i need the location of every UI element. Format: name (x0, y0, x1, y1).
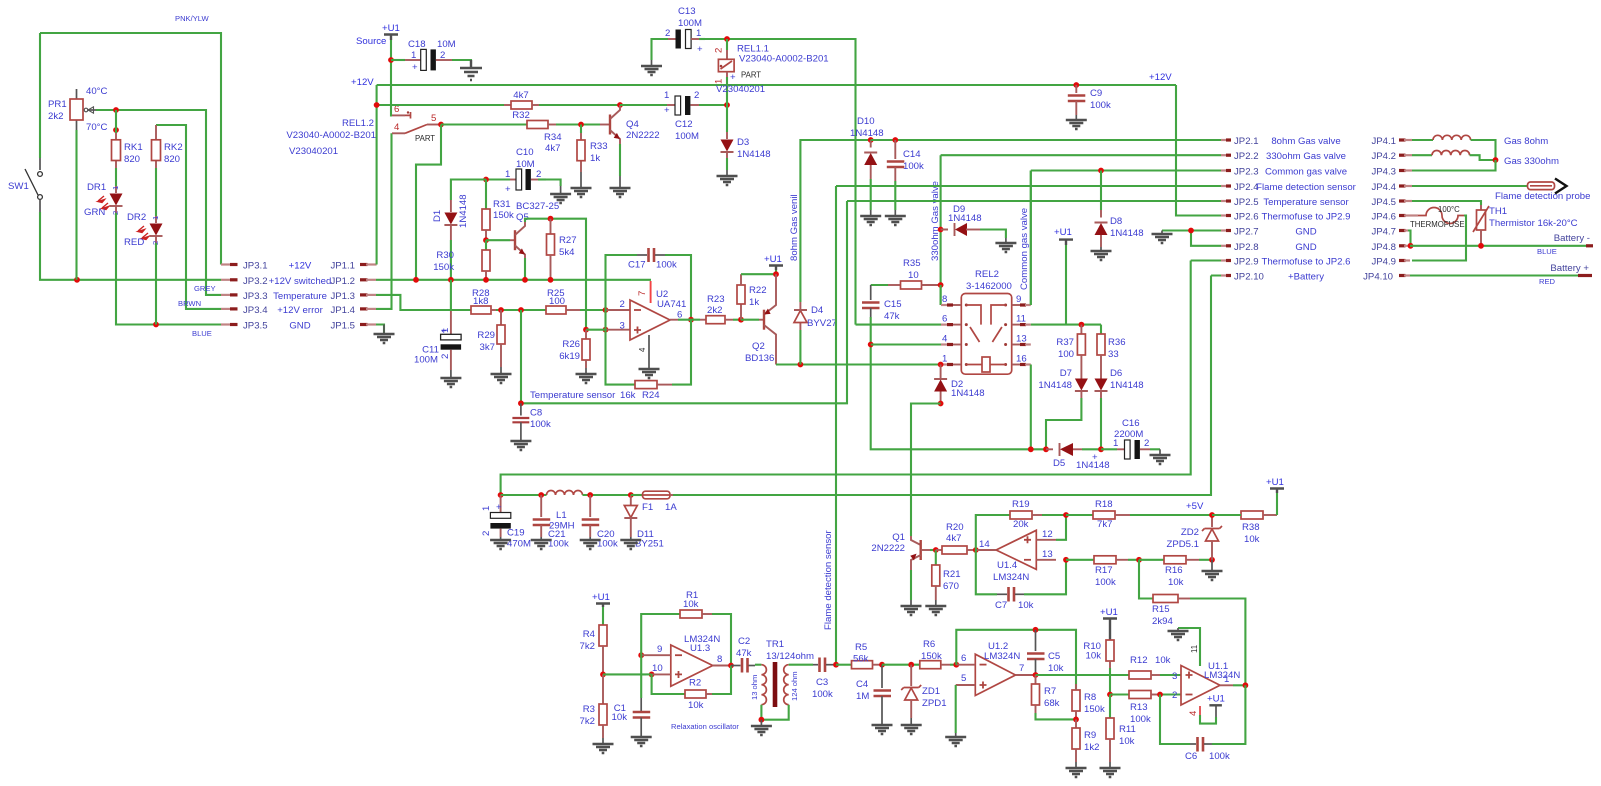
ground C9 (1066, 115, 1087, 129)
power +U1 source (356, 23, 400, 47)
wire pin5 down to JP1.2 net (416, 125, 441, 280)
node D5 left (1043, 446, 1049, 452)
svg-text:R7: R7 (1044, 686, 1056, 697)
ground R33 (571, 172, 592, 197)
diode D11 BY251 (624, 495, 664, 550)
transistor Q4 2N2222 (605, 105, 660, 144)
svg-text:330ohm Gas valve: 330ohm Gas valve (930, 181, 941, 261)
ground R9 (1066, 762, 1087, 777)
ground D11 (620, 537, 641, 549)
wire D6 to C16 node (1100, 398, 1102, 449)
resistor R24 16k feedback (606, 310, 692, 401)
svg-text:PNK/YLW: PNK/YLW (175, 14, 209, 23)
svg-text:R21: R21 (943, 569, 961, 580)
resistor R34 (527, 121, 605, 155)
wire JP2.5 row (847, 200, 1221, 202)
svg-text:JP3.3: JP3.3 (243, 291, 268, 302)
resistor R9 (1072, 719, 1099, 762)
svg-text:2: 2 (440, 354, 451, 359)
svg-text:Gas 330ohm: Gas 330ohm (1504, 156, 1559, 167)
wire pin12 to R19 node (1056, 515, 1066, 540)
wire C10 pin2 to ground (546, 180, 561, 187)
node R33 top (578, 122, 584, 128)
node C9 (1073, 82, 1079, 88)
label +12V right (1149, 72, 1172, 83)
svg-text:THERMOFUSE: THERMOFUSE (1410, 220, 1465, 229)
resistor R21 (932, 550, 961, 600)
svg-text:1k8: 1k8 (473, 296, 488, 307)
node Q4 collector (617, 102, 623, 108)
diode D7 (1038, 366, 1088, 398)
svg-text:40°C: 40°C (86, 86, 108, 97)
svg-text:PART: PART (741, 71, 761, 80)
svg-text:4k7: 4k7 (513, 90, 528, 101)
node C20 top (587, 492, 593, 498)
wire temperature net (521, 201, 847, 403)
zener ZD1 ZPD1 (901, 665, 946, 718)
wire C13 right / REL1.1 net (705, 39, 856, 325)
svg-text:JP4.6: JP4.6 (1371, 212, 1396, 223)
ground C11 (440, 370, 461, 387)
diode D4 BYV27 (794, 302, 837, 365)
wire U1.1 pin11 (1172, 628, 1200, 701)
node R37 top (1079, 322, 1085, 328)
connector JP1.2 (330, 276, 376, 287)
node C18 (388, 57, 394, 63)
svg-text:Source: Source (356, 36, 386, 47)
svg-text:D7: D7 (1060, 368, 1072, 379)
wire JP4.5 to TH1 (1412, 201, 1481, 205)
resistor R19 feedback (976, 499, 1066, 550)
svg-text:BC327-25: BC327-25 (516, 201, 559, 212)
svg-text:C3: C3 (816, 677, 828, 688)
svg-text:JP1.2: JP1.2 (330, 276, 355, 287)
wire pin11 row (1031, 324, 1101, 326)
diode D5 (1046, 443, 1110, 471)
capacitor C18 electrolytic (391, 39, 456, 73)
svg-text:13 ohm: 13 ohm (750, 675, 759, 700)
switch SW1 (8, 158, 42, 212)
ground D9 (995, 238, 1016, 252)
wire TR1 secondary to C3 (789, 664, 813, 666)
diode D9 (938, 204, 982, 236)
svg-text:R34: R34 (544, 132, 562, 143)
wire U2 output (670, 319, 700, 321)
wire JP2.10 battery net (673, 276, 1221, 496)
svg-text:29MH: 29MH (549, 521, 575, 532)
svg-text:R5: R5 (855, 642, 867, 653)
node C16 left (1098, 446, 1104, 452)
svg-text:Gas 8ohm: Gas 8ohm (1504, 136, 1548, 147)
node R35 right pin8 (938, 282, 944, 288)
resistor R25 (546, 288, 605, 314)
resistor R37 (1056, 325, 1085, 366)
wire pin16 down (1028, 365, 1034, 453)
node U1.2 pin6 (953, 662, 959, 668)
node D8 top (1098, 168, 1104, 174)
svg-text:1k: 1k (590, 153, 600, 164)
relay REL1.1 coil (714, 39, 829, 105)
svg-text:JP2.3: JP2.3 (1234, 167, 1259, 178)
resistor RK1 (112, 133, 143, 168)
resistor R38 (1212, 511, 1277, 545)
ground R11 (1100, 762, 1121, 777)
ground R3 (593, 738, 614, 753)
svg-text:JP4.5: JP4.5 (1371, 197, 1396, 208)
svg-text:8ohm Gas valve: 8ohm Gas valve (1271, 136, 1340, 147)
svg-text:C18: C18 (408, 39, 426, 50)
svg-text:GND: GND (1295, 242, 1316, 253)
potentiometer PR1 (48, 86, 108, 133)
resistor R10 (1083, 640, 1114, 695)
svg-text:L1: L1 (556, 510, 567, 521)
svg-text:R16: R16 (1165, 565, 1183, 576)
resistor R36 (1097, 325, 1126, 366)
svg-text:JP1.1: JP1.1 (330, 261, 355, 272)
svg-text:Q5: Q5 (516, 212, 529, 223)
wire C13 left to ground (652, 39, 669, 60)
svg-text:BYV27: BYV27 (807, 318, 837, 329)
svg-text:RK2: RK2 (164, 142, 183, 153)
svg-text:GREY: GREY (194, 284, 216, 293)
svg-text:4k7: 4k7 (545, 143, 560, 154)
svg-text:R23: R23 (707, 294, 725, 305)
svg-text:R20: R20 (946, 522, 964, 533)
svg-text:Thermistor 16k-20°C: Thermistor 16k-20°C (1489, 218, 1578, 229)
ground TR1 (751, 720, 772, 735)
wire pin8 (940, 285, 942, 305)
node junction PR1-bottom (74, 277, 80, 283)
svg-text:JP3.4: JP3.4 (243, 305, 268, 316)
svg-text:2: 2 (694, 90, 699, 101)
svg-text:10k: 10k (1155, 655, 1171, 666)
svg-text:D10: D10 (857, 116, 875, 127)
wire pin3 row (586, 329, 630, 331)
wire pin2 lead (606, 309, 631, 311)
diode D10 (850, 116, 884, 179)
svg-text:F1: F1 (642, 502, 653, 513)
svg-text:8ohm Gas venil: 8ohm Gas venil (789, 194, 800, 261)
svg-text:11: 11 (1190, 645, 1199, 653)
node R29 top (498, 307, 504, 313)
ground JP2.7 (1152, 231, 1173, 244)
node pin13 (1063, 557, 1069, 563)
wire battery plus row (1410, 263, 1592, 286)
svg-text:1: 1 (411, 50, 416, 61)
svg-text:100k: 100k (1090, 100, 1111, 111)
svg-text:+U1: +U1 (382, 23, 400, 34)
svg-text:R24: R24 (642, 390, 660, 401)
svg-text:R37: R37 (1056, 337, 1074, 348)
svg-text:10M: 10M (516, 159, 535, 170)
capacitor C1 (612, 655, 651, 737)
wire C10 to D1 (451, 180, 486, 201)
svg-text:PART: PART (415, 134, 435, 143)
connector JP3.5 (192, 321, 268, 339)
wire pin4 row (871, 343, 941, 345)
svg-text:JP1.4: JP1.4 (330, 305, 355, 316)
svg-text:D1: D1 (432, 210, 443, 222)
svg-text:2: 2 (1172, 690, 1177, 701)
ground C18 (460, 60, 482, 80)
node C21 top (538, 492, 544, 498)
svg-text:7k7: 7k7 (1097, 519, 1112, 530)
wire D1 to JP1.2 row (448, 240, 454, 283)
wire L1 to C20 (583, 494, 631, 496)
resistor R3 (580, 674, 607, 738)
svg-text:V23040201: V23040201 (716, 84, 765, 95)
svg-text:47k: 47k (884, 311, 900, 322)
capacitor C11 electrolytic (414, 280, 461, 370)
svg-text:1: 1 (481, 506, 492, 511)
svg-text:1M: 1M (856, 691, 869, 702)
svg-text:5k4: 5k4 (559, 247, 575, 258)
wire battery minus row (1410, 233, 1593, 256)
label REL2 name (966, 269, 1012, 292)
svg-text:10k: 10k (1048, 663, 1064, 674)
resistor R7 (1032, 675, 1060, 713)
label relaxation oscillator (671, 722, 739, 731)
wire C14 to ground (894, 181, 896, 210)
ground D3 (717, 170, 738, 185)
svg-text:Q2: Q2 (752, 341, 765, 352)
svg-text:R4: R4 (583, 629, 596, 640)
svg-text:GND: GND (289, 321, 310, 332)
power +U1 R10 (1100, 607, 1118, 640)
wire JP2.7 gnd (1162, 228, 1221, 246)
svg-text:+5V: +5V (1186, 501, 1204, 512)
svg-text:R2: R2 (689, 678, 701, 689)
transistor Q2 BD136 (741, 274, 776, 364)
svg-text:+U1: +U1 (1207, 694, 1225, 705)
resistor R33 (577, 125, 608, 173)
resistor R29 (477, 310, 505, 367)
connector JP2 block (1221, 136, 1264, 283)
ground D8 (1091, 247, 1112, 260)
svg-text:D6: D6 (1110, 368, 1122, 379)
svg-text:C15: C15 (884, 299, 902, 310)
svg-text:C8: C8 (530, 408, 542, 419)
svg-text:BD136: BD136 (745, 353, 774, 364)
resistor R35 (871, 258, 941, 289)
svg-text:GRN: GRN (84, 207, 105, 218)
svg-text:+12V: +12V (289, 261, 312, 272)
svg-text:4: 4 (942, 334, 948, 345)
label temperature sensor (530, 390, 616, 401)
svg-text:16: 16 (1016, 354, 1027, 365)
svg-text:UA741: UA741 (657, 299, 686, 310)
diode D8 (1095, 171, 1144, 248)
ground U1.2 pin5 (945, 733, 966, 746)
thermistor TH1 (1473, 205, 1578, 246)
svg-text:1: 1 (151, 216, 160, 220)
svg-text:+: + (441, 326, 447, 337)
resistor R18 (1066, 499, 1212, 530)
capacitor C16 electrolytic (1092, 418, 1160, 463)
svg-text:LM324N: LM324N (984, 651, 1020, 662)
svg-text:100: 100 (1058, 349, 1074, 360)
svg-text:14: 14 (979, 539, 990, 550)
svg-text:10k: 10k (1086, 651, 1102, 662)
transistor Q5 BC327-25 (486, 201, 559, 258)
svg-text:4: 4 (1188, 710, 1199, 716)
svg-text:5: 5 (961, 673, 966, 684)
wire D4 to JP2.1 (8ohm valve) (789, 140, 871, 302)
svg-text:DR1: DR1 (87, 182, 106, 193)
svg-text:R31: R31 (493, 199, 511, 210)
zener ZD2 ZPD5.1 (1166, 515, 1222, 560)
svg-text:R29: R29 (477, 330, 495, 341)
svg-text:100k: 100k (1095, 577, 1116, 588)
svg-text:C6: C6 (1185, 751, 1197, 762)
svg-text:100k: 100k (530, 419, 551, 430)
capacitor C12 electrolytic (620, 90, 727, 142)
svg-text:Battery -: Battery - (1554, 233, 1590, 244)
svg-text:6: 6 (942, 314, 947, 325)
svg-text:100M: 100M (414, 355, 438, 366)
relay REL2 pins left (941, 294, 961, 365)
svg-text:R13: R13 (1130, 702, 1148, 713)
ground C13 (641, 60, 662, 75)
svg-text:10k: 10k (683, 599, 699, 610)
resistor R20 (936, 522, 976, 554)
svg-text:100k: 100k (656, 260, 677, 271)
svg-text:+U1: +U1 (592, 592, 610, 603)
wire U1.2 feedback top (956, 630, 1076, 690)
inductor gas 330ohm coil (1412, 150, 1559, 167)
node R27 top (548, 216, 554, 222)
svg-text:7: 7 (1019, 663, 1024, 674)
svg-text:C12: C12 (675, 119, 693, 130)
wire U1.2 pin5 to ground (955, 685, 957, 733)
wire R4R3 to pin10 (603, 673, 646, 675)
capacitor C2 (731, 636, 755, 673)
resistor R16 (1139, 556, 1212, 588)
ground R26 (576, 368, 597, 383)
wire JP1.5 to ground (376, 325, 384, 334)
svg-text:JP1.3: JP1.3 (330, 291, 355, 302)
svg-text:3k7: 3k7 (480, 342, 495, 353)
svg-text:ZPD5.1: ZPD5.1 (1166, 539, 1199, 550)
svg-text:RK1: RK1 (124, 142, 143, 153)
svg-text:6: 6 (677, 309, 682, 320)
node +5V (1186, 501, 1215, 518)
svg-text:68k: 68k (1044, 698, 1060, 709)
svg-text:REL2: REL2 (975, 269, 999, 280)
wire Q4 emitter to ground (619, 144, 621, 176)
svg-text:10k: 10k (612, 712, 628, 723)
svg-text:+U1: +U1 (1054, 227, 1072, 238)
svg-text:670: 670 (943, 581, 959, 592)
svg-text:U1.4: U1.4 (997, 560, 1018, 571)
capacitor C21 (533, 495, 569, 550)
wire U2 pin7 (650, 281, 652, 303)
svg-text:+: + (697, 44, 703, 55)
capacitor C9 (1068, 85, 1111, 115)
svg-text:4k7: 4k7 (946, 533, 961, 544)
node pin2 loop (603, 307, 609, 313)
node ZD1 top (908, 662, 914, 668)
node pin9 (638, 652, 644, 658)
svg-text:124 ohm: 124 ohm (790, 671, 799, 701)
svg-text:100k: 100k (1130, 714, 1151, 725)
wire D3 to ground (726, 162, 728, 170)
svg-text:2N2222: 2N2222 (626, 130, 660, 141)
svg-text:R22: R22 (749, 285, 767, 296)
svg-text:+: + (496, 502, 502, 513)
wire Q1 emitter down (910, 570, 912, 600)
svg-text:7: 7 (637, 291, 648, 296)
svg-text:D8: D8 (1110, 216, 1122, 227)
svg-text:10: 10 (652, 663, 663, 674)
svg-text:R9: R9 (1084, 730, 1096, 741)
svg-text:JP2.6: JP2.6 (1234, 212, 1259, 223)
ground C10 (550, 186, 571, 203)
wire JP2.1 row (871, 139, 1221, 141)
svg-text:2200M: 2200M (1114, 429, 1143, 440)
svg-text:BRWN: BRWN (178, 299, 201, 308)
node R32 left (374, 102, 380, 108)
svg-text:JP3.5: JP3.5 (243, 321, 268, 332)
ground C4 (872, 725, 893, 734)
wire R22 to +U1 (741, 270, 779, 277)
wire Q5 collector to JP1.2 row (522, 258, 528, 283)
svg-text:2: 2 (620, 299, 625, 310)
wire pin6 row (856, 324, 942, 326)
node temperature tap (518, 307, 524, 313)
svg-text:ZPD1: ZPD1 (922, 698, 947, 709)
svg-text:1: 1 (505, 169, 510, 180)
svg-text:TH1: TH1 (1489, 206, 1507, 217)
node C3 flame (833, 662, 839, 668)
svg-text:2k2: 2k2 (707, 305, 722, 316)
label U1.1 (1204, 661, 1240, 681)
op-amp U2 UA741 (620, 289, 687, 352)
svg-text:C2: C2 (738, 636, 750, 647)
svg-text:JP4.8: JP4.8 (1371, 242, 1396, 253)
svg-text:R35: R35 (903, 258, 921, 269)
wire pin9 up (1030, 171, 1032, 306)
wire C18 to ground (452, 60, 471, 64)
inductor gas 8ohm coil (1412, 135, 1548, 160)
svg-text:150k: 150k (433, 262, 454, 273)
svg-text:9: 9 (657, 644, 662, 655)
node U1.2 out C5 (1033, 672, 1039, 678)
connector JP3.1 (221, 261, 268, 272)
resistor R1 feedback (641, 590, 731, 666)
svg-text:JP4.7: JP4.7 (1371, 227, 1396, 238)
wire JP1.3 jog (376, 295, 471, 310)
node ZD2 bottom (1209, 557, 1215, 563)
ground C8 (510, 441, 531, 450)
svg-text:Relaxation oscillator: Relaxation oscillator (671, 722, 739, 731)
svg-text:R26: R26 (562, 339, 580, 350)
svg-text:JP2.2: JP2.2 (1234, 151, 1259, 162)
resistor R30 (433, 240, 490, 282)
svg-text:C9: C9 (1090, 88, 1102, 99)
svg-text:Flame detection probe: Flame detection probe (1495, 191, 1590, 202)
svg-text:+12V: +12V (351, 77, 374, 88)
svg-text:8: 8 (717, 654, 722, 665)
svg-text:100°C: 100°C (1438, 205, 1460, 214)
svg-text:+U1: +U1 (1266, 477, 1284, 488)
LED DR2 (124, 212, 163, 248)
diode D3 (721, 105, 771, 162)
node R13 C6 (1157, 692, 1163, 698)
svg-text:1A: 1A (665, 502, 677, 513)
svg-text:12: 12 (1042, 529, 1053, 540)
svg-text:JP3.2: JP3.2 (243, 276, 268, 287)
